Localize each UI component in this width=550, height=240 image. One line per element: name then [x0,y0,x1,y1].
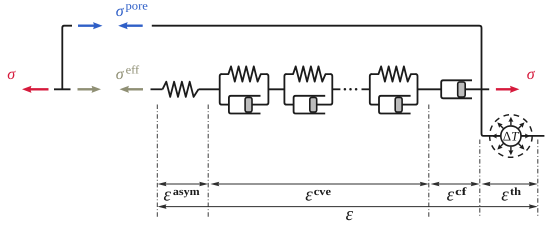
damper of Kelvin element 2 : rod left [285,104,293,106]
guide line : dash-dot at left of spring (strain datum 1) [156,105,158,218]
svg-text:ΔT: ΔT [503,128,519,143]
Kelvin-Voigt element N : frame bars [370,74,418,105]
label epsilon^cve [305,184,331,205]
svg-text:ε: ε [164,184,172,205]
node : ellipsis dots (continued chain) [344,88,358,91]
spring of Kelvin element 1 (top branch) [221,66,268,81]
label epsilon^th [501,184,521,205]
damper of Kelvin element N : rod right [402,104,416,106]
guide line : dash-dot between spring and Kelvin chain (strain datum 2) [207,105,209,218]
arrow : red applied stress arrow, left, pointing left [22,86,49,93]
thermal element Delta-T : radial expansion arrows [492,117,530,155]
guide line : dash-dot after Kelvin chain (strain datum 3) [428,105,430,218]
thermal element Delta-T : dashed outer circle [490,115,533,158]
wire : ellipsis to Kelvin N [362,88,370,90]
arrow : blue pore stress arrow pointing left [118,22,143,29]
svg-text:eff: eff [126,64,140,76]
damper (consolidation) : rod right through frame [465,88,489,90]
arrow : olive effective stress arrow pointing right [78,86,102,93]
svg-text:ε: ε [305,184,313,205]
svg-text:ε: ε [447,184,455,205]
svg-text:pore: pore [126,1,148,13]
guide line : dash-dot after consolidation damper (strain datum 4) [479,140,481,218]
damper of Kelvin element N : piston plate [395,97,402,112]
wire : left vertical riser to pore-pressure branch [62,26,72,90]
wire : Kelvin N to consolidation damper [418,88,442,90]
dimension arrow : epsilon^cf span [431,182,480,187]
damper of Kelvin element 2 : cylinder cup [294,96,326,114]
arrow : red applied stress arrow, right, pointing right [496,86,520,93]
svg-text:σ: σ [116,3,125,20]
spring E_asym (asymptotic elastic spring) [163,82,199,97]
svg-text:asym: asym [173,186,200,198]
dimension arrow : total strain epsilon span [158,204,538,209]
damper of Kelvin element 1 : cylinder cup [229,96,261,114]
svg-text:σ: σ [527,66,536,83]
guide line : dash-dot at right end (strain datum 5) [537,140,539,218]
label sigma^eff (olive) [116,64,140,83]
damper of Kelvin element 2 : rod right [317,104,332,106]
wire : top pore-pressure rail with right descent [152,26,545,136]
damper of Kelvin element N : cylinder cup [379,96,411,114]
damper of Kelvin element 1 : rod right [252,104,267,106]
damper (consolidation) : piston plate [458,82,466,97]
spring of Kelvin element N (top branch) [371,66,417,81]
damper of Kelvin element 2 : piston plate [310,97,317,112]
svg-text:ε: ε [501,184,509,205]
svg-text:σ: σ [7,66,16,83]
label epsilon^cf [447,184,467,205]
svg-text:ε: ε [346,204,354,225]
wire : Kelvin 2 to ellipsis [332,88,340,90]
wire : spring to first Kelvin element [199,88,220,90]
damper of Kelvin element N : rod left [371,104,379,106]
damper of Kelvin element 1 : piston plate [245,97,252,112]
svg-text:cve: cve [314,186,331,198]
Kelvin-Voigt element 1 : frame bars [220,74,269,105]
dimension arrow : epsilon^th span [482,182,538,187]
arrow : blue pore stress arrow pointing right [78,22,103,29]
label epsilon^asym [164,184,200,205]
wire : lead into asymptotic spring [151,88,163,90]
svg-text:σ: σ [116,66,125,83]
svg-text:th: th [510,186,521,198]
svg-text:cf: cf [455,186,467,198]
wire : Kelvin 1 to Kelvin 2 [268,88,284,90]
node A : left stress application tee [54,88,71,90]
dimension arrow : epsilon^asym span [158,182,209,187]
spring of Kelvin element 2 (top branch) [285,66,331,81]
Kelvin-Voigt element 2 : frame bars [284,74,332,105]
thermal element Delta-T : inner circle [501,126,521,146]
arrow : olive effective stress arrow pointing left [120,86,144,93]
damper of Kelvin element 1 (bottom branch) rod left [221,104,229,106]
dimension arrow : epsilon^cve span [210,182,428,187]
label sigma^pore (blue) [116,1,148,21]
damper (consolidation/friction element) : cylinder cup [441,80,472,98]
